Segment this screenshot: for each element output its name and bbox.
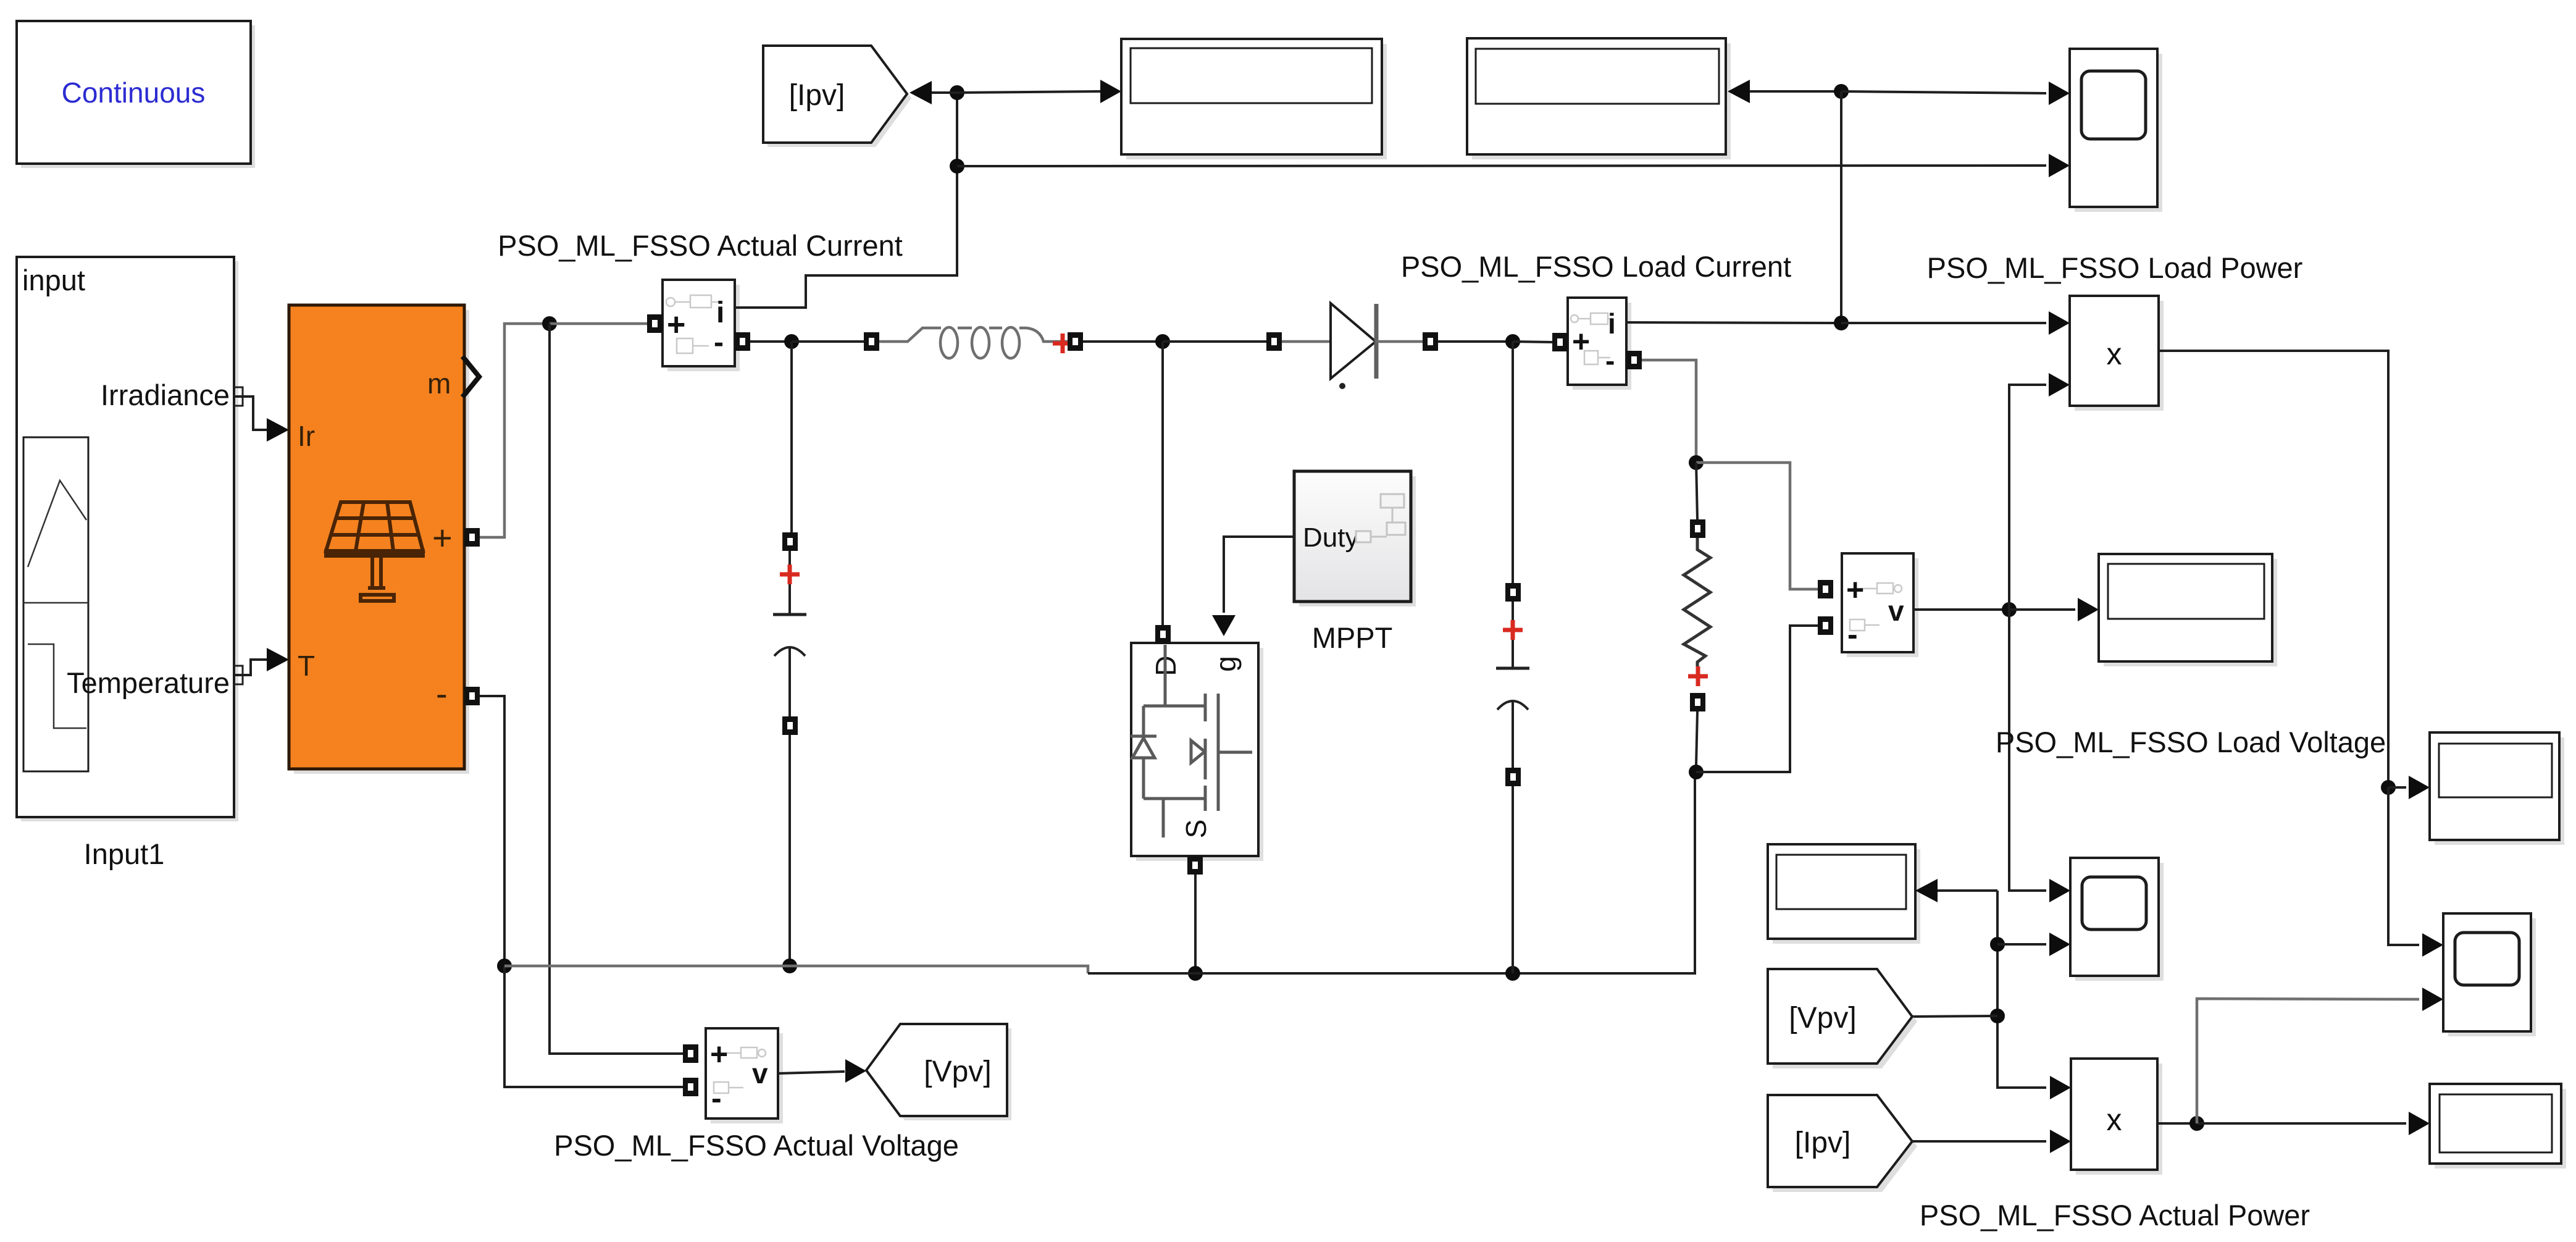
node on PV+ wire xyxy=(542,316,557,331)
CM1 + input port xyxy=(647,314,663,333)
svg-text:+: + xyxy=(1572,324,1590,359)
svg-text:Temperature: Temperature xyxy=(67,666,230,699)
diode D1 right port xyxy=(1423,332,1438,351)
PV + port xyxy=(464,528,480,547)
node C2 top xyxy=(1505,334,1520,349)
wire node to VM2 + input xyxy=(1696,463,1818,589)
resistor R load xyxy=(1684,538,1710,668)
arrowhead into Scope4 input2 xyxy=(2422,988,2443,1011)
wire node down to VM1 + input xyxy=(550,324,683,1054)
From tag [Ipv] xyxy=(1768,1095,1917,1192)
wire node to Goto Ipv xyxy=(929,91,957,94)
PV array block xyxy=(289,305,469,774)
svg-text:[Ipv]: [Ipv] xyxy=(1795,1127,1851,1159)
arrowhead into gate xyxy=(1212,615,1236,636)
wire X1 output load power xyxy=(2159,351,2388,781)
product X1 xyxy=(2070,296,2164,411)
node Ipv lower xyxy=(950,159,964,174)
wire node down to MOSFET D port xyxy=(1161,342,1164,626)
wire inductor to node D xyxy=(1083,340,1156,343)
wire X2 output actual power xyxy=(2157,1122,2190,1125)
svg-text:PSO_ML_FSSO Actual Current: PSO_ML_FSSO Actual Current xyxy=(498,229,903,262)
wire node to CM1 + input xyxy=(550,322,648,325)
wire Temperature to T xyxy=(234,648,289,675)
svg-text:-: - xyxy=(1847,617,1858,652)
R load bottom port xyxy=(1690,693,1705,711)
svg-text:Ir: Ir xyxy=(298,420,315,452)
svg-text:i: i xyxy=(1608,308,1616,340)
diode D1 xyxy=(1282,303,1423,389)
Goto tag [Vpv] xyxy=(866,1024,1011,1120)
voltage measurement VM1 actual voltage xyxy=(706,1028,783,1123)
wire node up to Scope4 input2 xyxy=(2197,999,2419,1123)
svg-text:+: + xyxy=(432,518,453,557)
PV panel icon xyxy=(326,502,423,601)
svg-text:PSO_ML_FSSO Actual Power: PSO_ML_FSSO Actual Power xyxy=(1920,1199,2310,1232)
svg-text:Irradiance: Irradiance xyxy=(101,379,230,411)
svg-text:x: x xyxy=(2107,337,2122,371)
scope Scope4 xyxy=(2443,913,2536,1036)
node S on bus xyxy=(1188,966,1203,981)
wire node to Display6 xyxy=(2197,1122,2406,1125)
arrowhead into Scope2 input1 xyxy=(2049,879,2070,902)
node actual power xyxy=(2189,1116,2204,1131)
wire node to Scope2 input2 xyxy=(1997,943,2046,946)
wire node to Display2 xyxy=(1750,90,1841,93)
node Vpv from tag xyxy=(1990,1009,2005,1023)
svg-text:-: - xyxy=(436,674,448,713)
wire node down to Scope4 input1 xyxy=(2388,787,2419,945)
display Display3 load voltage xyxy=(2099,554,2277,666)
arrowhead into Display4 right edge xyxy=(1915,879,1938,902)
arrowhead into Display3 xyxy=(2078,598,2099,621)
wire R bottom to node xyxy=(1696,711,1697,765)
arrowhead into X2 input2 xyxy=(2050,1130,2071,1153)
inductor L right port xyxy=(1068,332,1083,351)
svg-text:x: x xyxy=(2107,1102,2122,1137)
svg-text:-: - xyxy=(711,1081,722,1115)
wire node to VM2 - input xyxy=(1696,626,1818,772)
inductor L coil xyxy=(879,327,1068,358)
inductor red + xyxy=(1053,334,1073,353)
wire MOSFET S to bus xyxy=(1194,875,1197,967)
svg-text:MPPT: MPPT xyxy=(1312,621,1393,654)
node MOSFET drain xyxy=(1155,334,1170,349)
R red + xyxy=(1688,666,1708,686)
arrowhead into Display1 xyxy=(1100,80,1121,103)
display Display1 xyxy=(1121,39,1387,159)
arrowhead into Scope1 lower input xyxy=(2049,154,2070,177)
svg-text:-: - xyxy=(714,326,724,359)
node R top xyxy=(1689,455,1704,470)
wire Duty to MOSFET gate xyxy=(1224,537,1294,613)
node Ipv upper xyxy=(950,85,964,100)
voltage measurement VM2 xyxy=(1842,553,1918,657)
wire PV+ up to node xyxy=(480,324,542,537)
arrowhead into Display5 xyxy=(2409,776,2430,799)
arrowhead into X2 input1 xyxy=(2050,1076,2071,1099)
arrowhead into Goto Vpv xyxy=(845,1059,866,1083)
wire node up to X1 input2 xyxy=(2009,385,2046,610)
node R bottom xyxy=(1689,765,1704,779)
CM2 + input port xyxy=(1552,333,1568,351)
wire node down to VM1 - input xyxy=(504,966,683,1087)
scope Scope1 xyxy=(2070,49,2162,212)
bus bottom gray segment xyxy=(504,966,1088,973)
wire node to Display1 xyxy=(957,91,1102,93)
svg-text:v: v xyxy=(1888,595,1904,627)
scope Scope2 xyxy=(2070,858,2164,981)
node C1 bottom on bus xyxy=(782,959,797,973)
svg-text:Input1: Input1 xyxy=(84,837,165,870)
arrowhead into Display2 right edge xyxy=(1728,80,1750,103)
display Display4 actual voltage xyxy=(1768,844,1920,944)
wire long Ipv line to Scope1 lower input xyxy=(957,166,2046,166)
wire VM1 v output to Goto Vpv xyxy=(778,1072,845,1073)
wire node down to Scope2 input1 xyxy=(2009,610,2046,891)
PV - port xyxy=(464,687,480,705)
arrowhead into Scope4 input1 xyxy=(2422,933,2443,957)
From tag [Vpv] xyxy=(1768,969,1917,1068)
wire node to CM2 + input xyxy=(1513,342,1553,342)
capacitor C1 xyxy=(773,342,806,959)
wire diode to node C2 xyxy=(1438,340,1506,343)
wire From Ipv to X2 input2 xyxy=(1912,1140,2046,1143)
display Display6 actual power xyxy=(2430,1084,2566,1169)
node PV- at bus xyxy=(497,959,512,973)
MOSFET D port xyxy=(1155,625,1171,644)
svg-text:[Vpv]: [Vpv] xyxy=(924,1055,991,1088)
MOSFET S port xyxy=(1187,856,1203,875)
display Display5 load power xyxy=(2430,732,2564,845)
node load current line xyxy=(1834,316,1849,330)
wire PV- to lower node xyxy=(480,696,504,959)
wire node to X1 input1 xyxy=(1841,322,2046,324)
svg-text:PSO_ML_FSSO Load Voltage: PSO_ML_FSSO Load Voltage xyxy=(1996,726,2386,758)
svg-text:m: m xyxy=(427,367,451,400)
wire node to Display5 xyxy=(2388,786,2406,789)
svg-text:v: v xyxy=(752,1057,768,1089)
node load current to scope xyxy=(1834,84,1849,99)
svg-text:i: i xyxy=(716,296,724,329)
wire VM2 v output to node xyxy=(1913,608,2002,611)
VM1 + input port xyxy=(683,1044,698,1063)
diode D1 left port xyxy=(1266,332,1282,351)
svg-text:PSO_ML_FSSO Load Current: PSO_ML_FSSO Load Current xyxy=(1401,250,1791,283)
wire From Vpv tip to node xyxy=(1912,1016,1997,1017)
wire CM2 i output to node xyxy=(1626,322,1834,323)
arrowhead into Scope2 input2 xyxy=(2049,933,2070,956)
arrowhead into X1 input2 xyxy=(2049,373,2070,397)
svg-text:[Ipv]: [Ipv] xyxy=(789,79,845,112)
R load top port xyxy=(1690,519,1705,538)
wire Irradiance to Ir xyxy=(234,397,289,442)
VM2 - input port xyxy=(1818,616,1833,635)
PV m output port chevron xyxy=(462,356,479,397)
MOSFET block xyxy=(1131,643,1263,861)
svg-text:[Vpv]: [Vpv] xyxy=(1789,1002,1856,1034)
VM2 + input port xyxy=(1818,580,1833,598)
svg-text:input: input xyxy=(22,264,85,296)
MPPT block xyxy=(1294,471,1416,606)
inductor L left port xyxy=(864,332,879,351)
svg-text:Continuous: Continuous xyxy=(62,77,206,109)
node load power xyxy=(2381,780,2396,795)
CM2 - output port xyxy=(1626,351,1642,369)
capacitor C2 xyxy=(1496,342,1529,973)
wire Vpv vertical line xyxy=(1997,891,2046,1088)
arrowhead into X1 input1 xyxy=(2049,311,2070,335)
svg-text:+: + xyxy=(1846,573,1864,607)
product X2 xyxy=(2071,1059,2162,1175)
arrowhead into Scope1 upper input xyxy=(2049,82,2070,105)
Goto tag [Ipv] xyxy=(763,46,911,147)
wire node down to load current line xyxy=(1840,91,1842,316)
node inductor left xyxy=(784,334,799,349)
CM1 - output port xyxy=(735,332,750,351)
wire CM2 - down to node xyxy=(1642,360,1696,456)
display Display2 xyxy=(1467,38,1731,159)
wire node to Display3 xyxy=(2009,608,2075,611)
signal builder block Input1 xyxy=(17,257,243,870)
current measurement CM2 xyxy=(1568,298,1631,390)
current measurement CM1 xyxy=(663,280,740,371)
node C2 bottom on bus xyxy=(1505,966,1520,981)
svg-text:S: S xyxy=(1180,820,1212,839)
wire node to inductor xyxy=(792,340,864,343)
svg-text:+: + xyxy=(710,1037,728,1072)
node Vpv to scope2 xyxy=(1990,937,2005,952)
arrowhead into Goto Ipv xyxy=(910,81,932,104)
svg-text:PSO_ML_FSSO Load Power: PSO_ML_FSSO Load Power xyxy=(1927,251,2303,284)
svg-text:g: g xyxy=(1210,656,1242,672)
wire node to diode xyxy=(1163,340,1266,343)
svg-text:T: T xyxy=(298,650,315,682)
wire node down to R xyxy=(1696,463,1697,519)
svg-text:-: - xyxy=(1605,345,1615,377)
powergui block "Continuous" xyxy=(17,21,255,168)
svg-text:Duty: Duty xyxy=(1303,522,1358,553)
bus bottom dark segment xyxy=(1088,779,1695,973)
wire CM1 i output staircase up xyxy=(735,99,957,308)
node load voltage xyxy=(2002,602,2017,617)
wire CM1 - output to node xyxy=(750,340,785,343)
svg-text:+: + xyxy=(667,307,685,343)
VM1 - input port xyxy=(683,1078,698,1096)
wire Display4 to Vpv line xyxy=(1938,889,1997,892)
arrowhead into Display6 xyxy=(2409,1112,2430,1135)
svg-text:PSO_ML_FSSO Actual Voltage: PSO_ML_FSSO Actual Voltage xyxy=(554,1129,959,1162)
wire node to Scope1 upper input xyxy=(1841,91,2046,93)
